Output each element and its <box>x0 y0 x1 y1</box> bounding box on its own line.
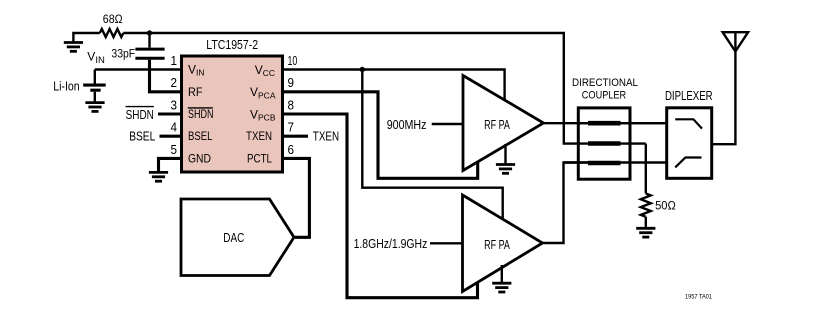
wire lower RF PA ground stem <box>501 265 503 283</box>
amplifier upper RF PA <box>463 76 544 171</box>
ground (GND pin) <box>149 172 168 181</box>
op-amp/controller U1 LTC1957-2 body <box>182 56 283 172</box>
wire lower RF PA output to coupler <box>543 163 595 244</box>
battery Li-Ion <box>83 70 106 103</box>
wire capacitor to RF pin 2 <box>150 60 182 92</box>
wire PCTL pin 6 to DAC <box>284 158 309 237</box>
svg-text:5: 5 <box>171 143 178 157</box>
wire VPCA pin 9 to upper RF PA control <box>284 92 478 179</box>
svg-text:33pF: 33pF <box>111 47 135 61</box>
ground (upper RF PA) <box>496 165 515 174</box>
svg-text:2: 2 <box>171 76 178 90</box>
wire upper RF PA output to coupler <box>544 122 667 124</box>
directional coupler box <box>578 108 630 179</box>
svg-text:TXEN: TXEN <box>313 130 339 144</box>
svg-text:COUPLER: COUPLER <box>582 90 627 102</box>
svg-text:Li-Ion: Li-Ion <box>53 78 79 93</box>
DAC block <box>181 199 294 276</box>
svg-text:1: 1 <box>171 54 178 68</box>
amplifier lower RF PA <box>463 195 543 292</box>
resistor 68ohm <box>100 29 124 37</box>
wire coupler bottom line to diplexer <box>564 161 667 163</box>
svg-text:RF PA: RF PA <box>484 238 510 252</box>
coupler bar bottom <box>588 161 621 166</box>
wire SHDN to pin 3 <box>158 112 181 115</box>
svg-text:9: 9 <box>288 76 295 90</box>
wire coupled port through line <box>594 142 646 144</box>
svg-text:SHDN: SHDN <box>188 107 214 121</box>
wire 50ohm to ground <box>645 217 647 229</box>
wire ground stem to 68 ohm node <box>73 33 99 43</box>
resistor 50ohm <box>641 194 651 217</box>
antenna <box>723 32 749 51</box>
junction dot VCC <box>360 67 365 72</box>
svg-text:GND: GND <box>188 151 211 165</box>
wire VPCB pin 8 to lower RF PA control <box>284 114 478 298</box>
U1 pin label SHDN (overline) <box>188 107 214 121</box>
coupler bar middle <box>588 141 621 146</box>
svg-text:1.8GHz/1.9GHz: 1.8GHz/1.9GHz <box>354 237 428 251</box>
wire GND pin 5 to ground <box>159 158 182 172</box>
wire top run to directional coupler <box>150 33 595 144</box>
svg-text:900MHz: 900MHz <box>387 118 427 132</box>
wire 900MHz input <box>432 123 463 125</box>
svg-text:LTC1957-2: LTC1957-2 <box>206 37 258 52</box>
coupler bar top <box>588 121 621 126</box>
svg-text:RF PA: RF PA <box>484 118 510 132</box>
svg-text:SHDN: SHDN <box>126 108 154 122</box>
svg-text:10: 10 <box>288 54 298 68</box>
wire TXEN pin 7 stub <box>284 135 308 138</box>
svg-text:7: 7 <box>288 121 295 135</box>
wire VCC pin 10 to upper RF PA supply <box>284 70 505 103</box>
ground (68&#937; termination) <box>64 43 83 52</box>
svg-text:6: 6 <box>288 143 295 157</box>
svg-text:BSEL: BSEL <box>129 130 155 144</box>
junction dot node RF-detect <box>147 30 152 35</box>
wire upper RF PA ground stem <box>504 144 506 165</box>
wire VIN battery to pin 1 <box>95 68 181 70</box>
wire 68ohm to node <box>123 32 149 34</box>
svg-text:68Ω: 68Ω <box>103 14 123 26</box>
wire diplexer to antenna <box>712 33 736 144</box>
svg-text:TXEN: TXEN <box>246 129 272 143</box>
svg-text:3: 3 <box>171 98 178 112</box>
svg-text:DIRECTIONAL: DIRECTIONAL <box>572 77 638 89</box>
svg-text:DAC: DAC <box>223 230 244 245</box>
svg-text:DIPLEXER: DIPLEXER <box>665 89 713 103</box>
wire VCC branch to lower RF PA supply <box>362 70 502 222</box>
wire coupled port to 50ohm <box>645 144 647 194</box>
svg-text:50Ω: 50Ω <box>655 201 676 213</box>
svg-text:8: 8 <box>288 98 295 112</box>
svg-text:RF: RF <box>188 85 203 99</box>
wire 1.8GHz input <box>430 242 463 244</box>
svg-text:PCTL: PCTL <box>247 151 272 165</box>
diplexer highpass filter symbol <box>675 158 701 168</box>
svg-text:1957 TA01: 1957 TA01 <box>685 294 712 301</box>
diplexer box <box>667 108 712 179</box>
label SHDN (external, overline) <box>126 107 154 122</box>
svg-text:BSEL: BSEL <box>188 129 213 143</box>
ground (battery) <box>85 103 104 112</box>
ground (50ohm) <box>636 228 655 237</box>
ground (lower RF PA) <box>492 283 511 292</box>
capacitor 33pF <box>135 33 164 58</box>
diplexer lowpass filter symbol <box>675 119 702 128</box>
wire coupler top line to diplexer <box>578 122 666 124</box>
wire BSEL to pin 4 <box>160 135 182 138</box>
svg-text:4: 4 <box>171 121 178 135</box>
